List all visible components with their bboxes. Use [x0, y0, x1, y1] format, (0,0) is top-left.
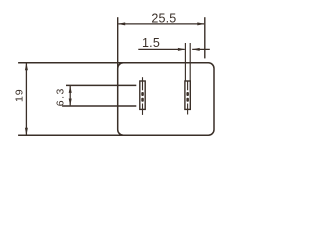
dim 6.3 top extension line	[66, 84, 136, 86]
pin 1 axis upper dash	[142, 81, 144, 90]
pin 2 axis overshoot below	[187, 110, 189, 115]
dim 25.5 left arrowhead	[118, 22, 126, 25]
pin 2 outer rectangle	[185, 81, 190, 109]
dim 25.5 dimension line	[118, 23, 204, 25]
dim 1.5 right extension line (pin 2 right side extended up)	[189, 43, 191, 81]
pin 1 axis lower dash	[142, 104, 144, 110]
dim 6.3 bottom extension line	[62, 105, 136, 107]
svg-text:1.5: 1.5	[142, 36, 160, 50]
pin 1 axis overshoot above	[142, 77, 144, 81]
pin 1 outer rectangle	[140, 81, 145, 109]
pin 2 axis lower dash	[187, 104, 189, 110]
svg-text:19: 19	[14, 88, 26, 102]
dim 19 bottom arrowhead	[25, 128, 28, 136]
dim 1.5 left leader line	[138, 48, 184, 50]
dim 19 top arrowhead	[25, 63, 28, 71]
svg-text:6.3: 6.3	[55, 87, 67, 106]
dim 6.3 dimension line	[69, 86, 71, 105]
dim 19 bottom extension line (body bottom edge extended left)	[18, 134, 124, 136]
dim 25.5 left extension line	[117, 17, 119, 68]
pin 1 axis overshoot below	[142, 110, 144, 115]
dim 6.3 top arrowhead	[69, 85, 72, 93]
dim 25.5 right arrowhead	[197, 22, 205, 25]
pin 2 hole dash (thick)	[186, 92, 189, 96]
pin 2 axis upper dash	[187, 81, 189, 90]
dim 1.5 right arrowhead	[192, 48, 200, 51]
pin 1 hole dash (thick)	[141, 92, 144, 96]
dim 25.5 right extension line	[204, 17, 206, 58]
dim 1.5 left arrowhead	[178, 48, 186, 51]
dim 1.5 right leader line	[192, 48, 210, 50]
body outline	[118, 63, 214, 135]
svg-text:25.5: 25.5	[151, 12, 176, 26]
dim 6.3 bottom arrowhead	[69, 99, 72, 107]
pin 1 hole dash lower (thick)	[141, 98, 144, 102]
dim 19 dimension line	[25, 64, 27, 135]
pin 2 hole dash lower (thick)	[186, 98, 189, 102]
dim 19 top extension line (body top edge extended left)	[18, 62, 123, 64]
dim 1.5 left extension line (pin 2 left side extended up)	[184, 43, 186, 81]
